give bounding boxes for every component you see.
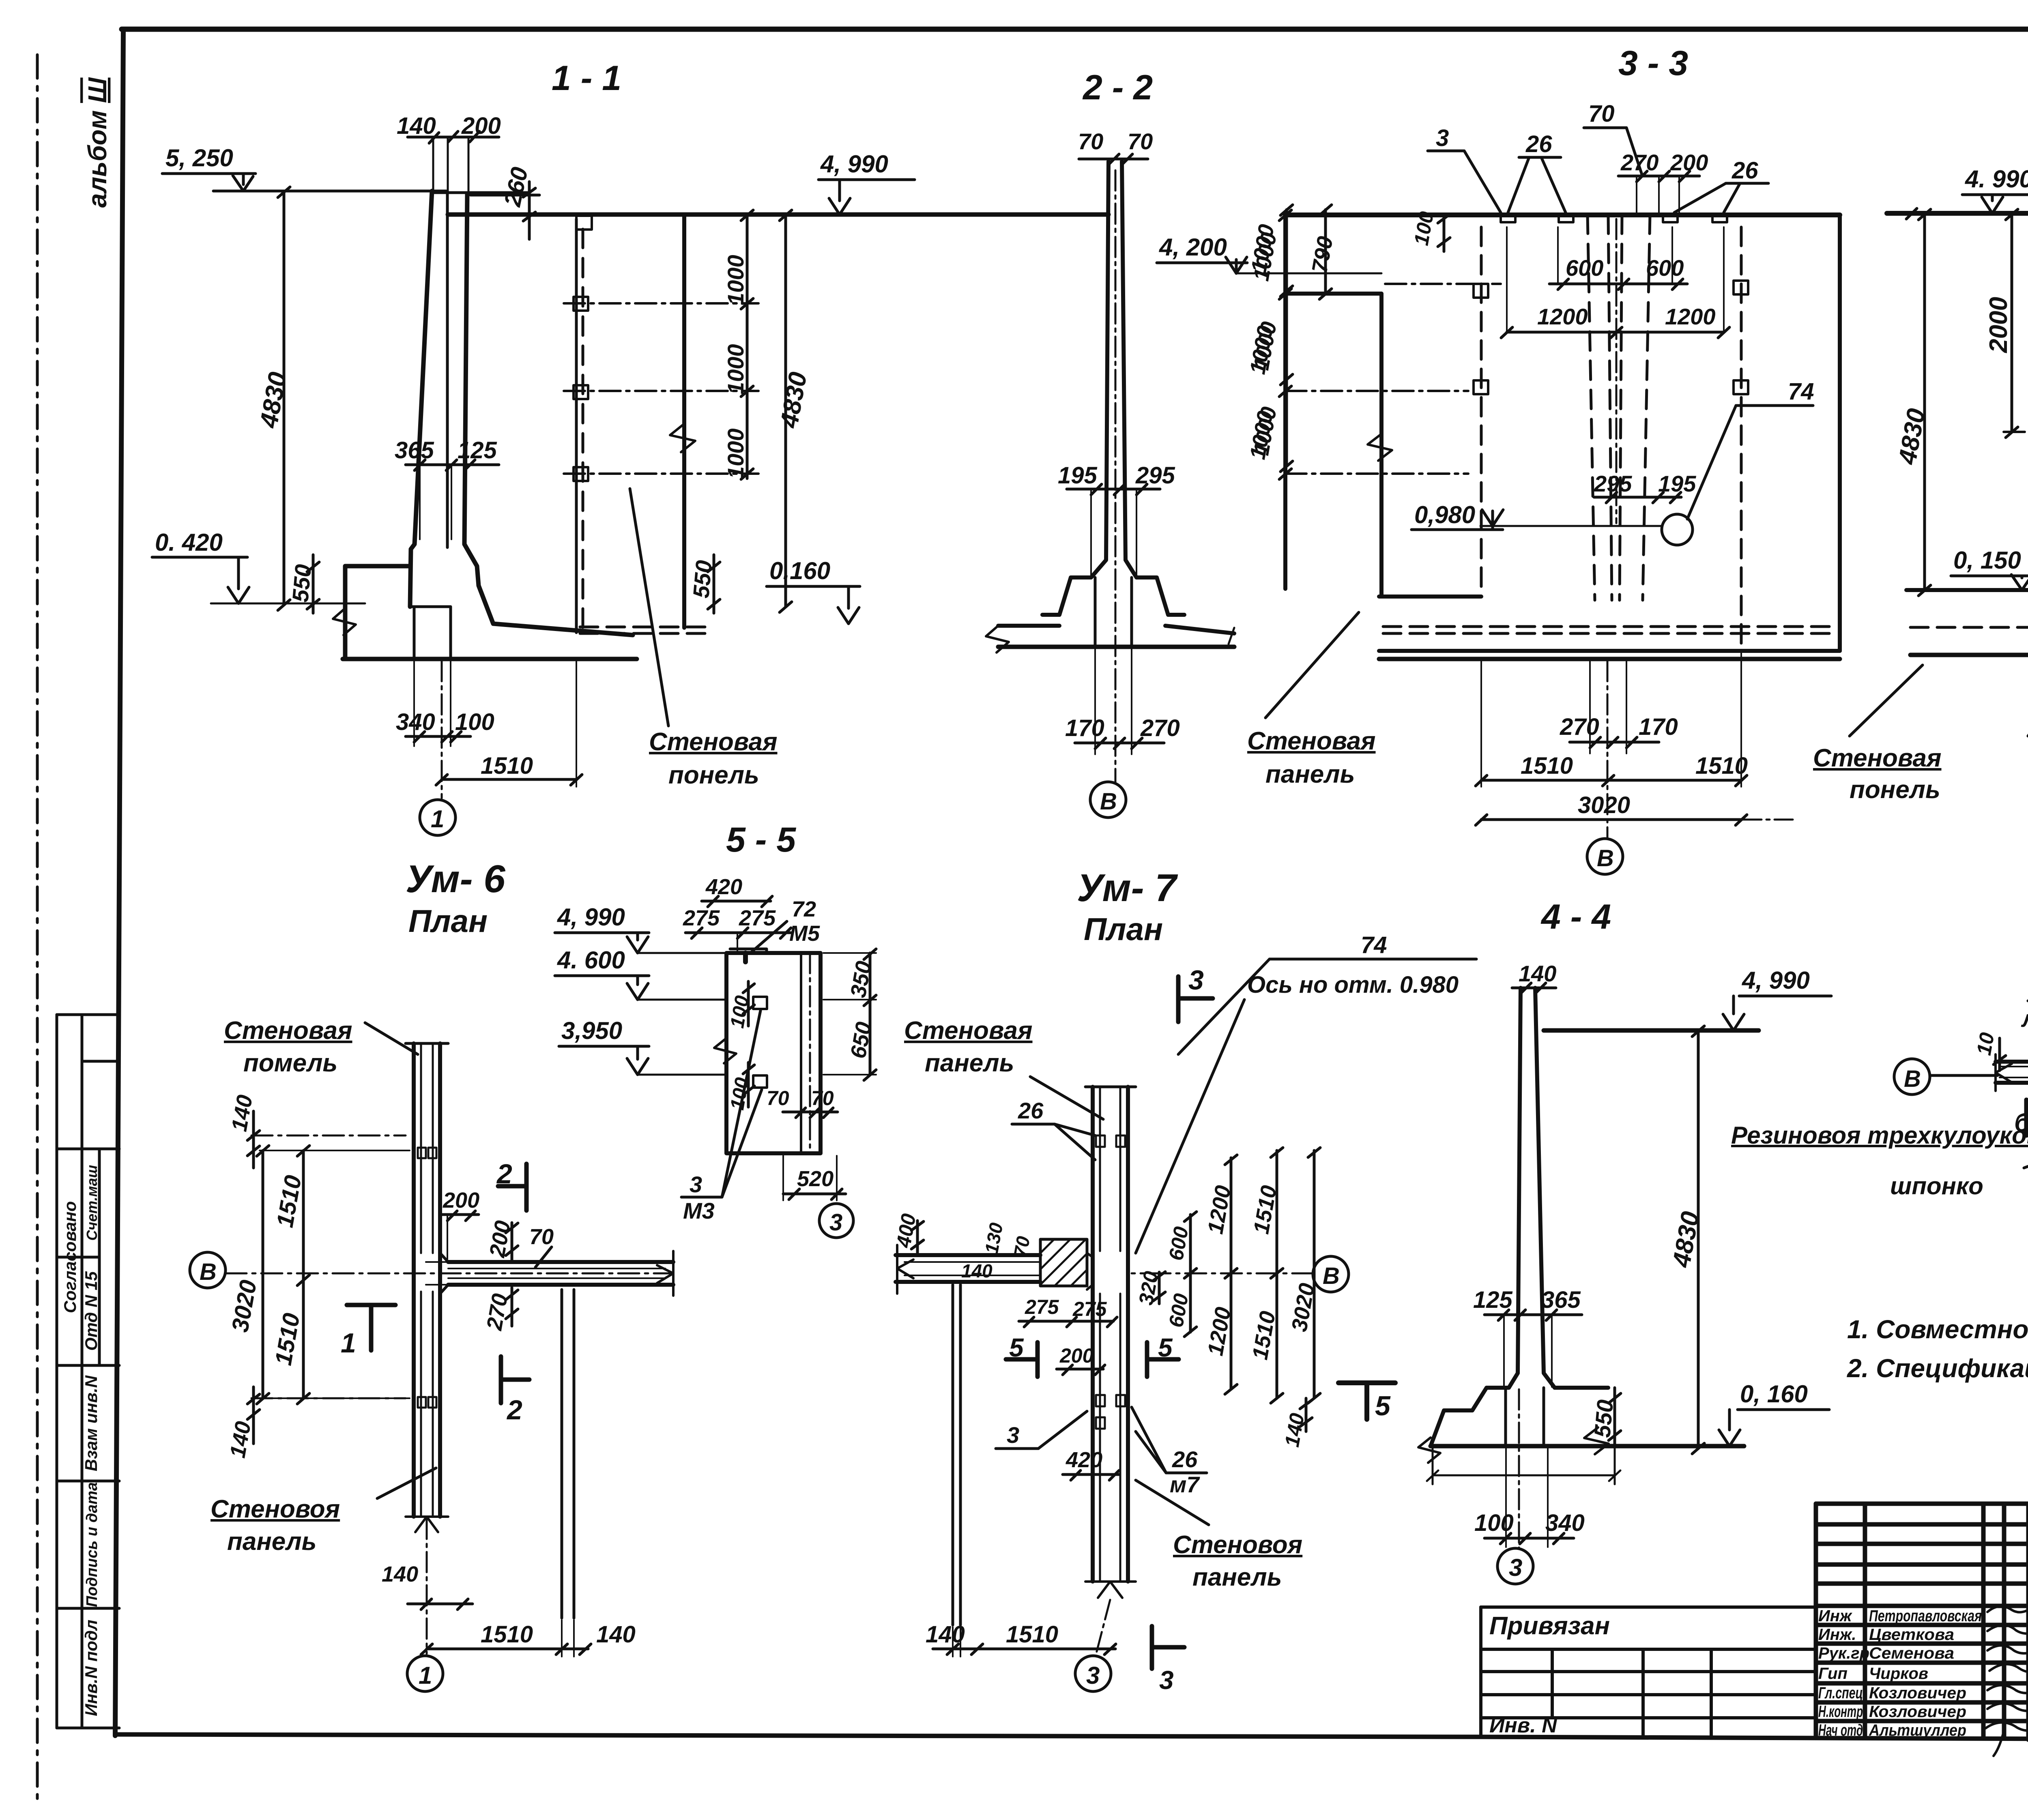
label 26 right with leaders bbox=[1674, 157, 1768, 212]
svg-text:26: 26 bbox=[1525, 131, 1552, 157]
axis bubble 1 bbox=[420, 800, 455, 835]
axis bubble 3 Um-7 bbox=[1075, 1600, 1111, 1691]
стеновая панель label Um-6 top bbox=[224, 1017, 418, 1077]
dim 275/275 below arm bbox=[1019, 1296, 1117, 1327]
svg-text:5: 5 bbox=[1009, 1333, 1024, 1362]
svg-text:Стеновая: Стеновая bbox=[1813, 744, 1942, 772]
dim 125/365 4-4 bbox=[1473, 1287, 1582, 1387]
svg-text:В: В bbox=[1904, 1066, 1921, 1092]
svg-text:Инв. N: Инв. N bbox=[1489, 1714, 1558, 1737]
svg-text:170: 170 bbox=[1065, 715, 1104, 741]
clip 2 with 100 dim bbox=[726, 1062, 767, 1112]
4-4 footing bbox=[1431, 1388, 1509, 1446]
svg-text:В: В bbox=[1597, 845, 1614, 871]
стеновая панель label 6-6 bbox=[1813, 665, 2028, 804]
left end arrows bbox=[1996, 1054, 2012, 1091]
dim 320 rotated bbox=[1134, 1269, 1165, 1307]
dim 140/200 at wall top bbox=[397, 113, 501, 143]
wall top cap bbox=[1085, 1086, 1136, 1088]
6-6 top line bbox=[1887, 211, 2028, 216]
wall 1-1 right face bbox=[464, 193, 633, 635]
axis bubble B Um-7 bbox=[1313, 1256, 1349, 1292]
left stamp strip table bbox=[57, 1015, 119, 1728]
svg-text:70: 70 bbox=[529, 1225, 554, 1249]
6-6 footing bottom bbox=[1910, 655, 2028, 678]
dim 400 rotated at arm left bbox=[892, 1212, 924, 1253]
svg-text:3: 3 bbox=[1086, 1662, 1100, 1689]
svg-text:275: 275 bbox=[683, 906, 720, 930]
svg-text:Отд N 15: Отд N 15 bbox=[82, 1271, 101, 1350]
dim 2000 bbox=[1985, 209, 2018, 438]
svg-text:Инж: Инж bbox=[1818, 1607, 1853, 1625]
svg-text:275: 275 bbox=[1025, 1296, 1059, 1318]
footing 2-2 slab bbox=[998, 624, 1059, 628]
svg-text:1510: 1510 bbox=[481, 753, 533, 779]
elevation 0.160 bbox=[767, 557, 860, 624]
dim 100/340 4-4 bbox=[1474, 1448, 1585, 1547]
dim 550 right (at panel) bbox=[688, 555, 720, 613]
clip 1 with 100 dim bbox=[726, 981, 767, 1030]
dim 1510/1510 rotated Um-7 bbox=[1248, 1148, 1283, 1403]
dim column 1000 2-2 bbox=[1249, 205, 1293, 472]
svg-text:295: 295 bbox=[1135, 462, 1175, 489]
elevation 4.600 5-5 bbox=[555, 946, 726, 1000]
section mark 2 upper bbox=[496, 1159, 526, 1210]
svg-text:26: 26 bbox=[1172, 1447, 1198, 1472]
svg-text:5, 250: 5, 250 bbox=[165, 144, 233, 172]
svg-text:200: 200 bbox=[443, 1188, 479, 1213]
svg-text:панель: панель bbox=[1265, 760, 1355, 788]
axis bubble B 3-3 bbox=[1587, 839, 1623, 874]
svg-text:125: 125 bbox=[458, 437, 497, 464]
dim 1200/1200 bbox=[1501, 227, 1729, 338]
svg-text:В: В bbox=[1323, 1263, 1340, 1289]
svg-text:Козловичер: Козловичер bbox=[1869, 1684, 1966, 1702]
sheet outer left edge (fold line) bbox=[36, 55, 39, 1801]
dim 140 bottom rotated bbox=[226, 1387, 260, 1460]
svg-text:1510: 1510 bbox=[1695, 753, 1748, 779]
axis B to wall bbox=[1132, 1273, 1313, 1275]
svg-text:4, 200: 4, 200 bbox=[1159, 234, 1227, 261]
svg-text:4. 600: 4. 600 bbox=[557, 946, 625, 974]
dim 1510 / 140 bottom bbox=[421, 1620, 636, 1657]
axis bubble 3 4-4 bbox=[1497, 1389, 1533, 1584]
4-4 wall faces bbox=[1509, 988, 1521, 1388]
svg-text:26: 26 bbox=[1018, 1098, 1044, 1123]
dim 140 bottom horiz bbox=[382, 1562, 473, 1610]
break on inner edge bbox=[1368, 434, 1392, 461]
svg-text:Инв.N подл: Инв.N подл bbox=[82, 1620, 101, 1716]
dash tie top bbox=[251, 1135, 406, 1137]
title block: pривязан box bbox=[1481, 1607, 1816, 1737]
clip squares on 3-3 top bbox=[1501, 215, 1515, 222]
frame left border bbox=[115, 29, 123, 1736]
junction wedges bbox=[440, 1253, 448, 1294]
6-6 footing top line bbox=[1906, 588, 2028, 592]
dim 520 bottom 5-5 bbox=[783, 1156, 846, 1200]
hidden slab dashes right bbox=[580, 627, 706, 633]
svg-text:Стеновоя: Стеновоя bbox=[211, 1495, 340, 1523]
svg-text:3: 3 bbox=[1188, 965, 1204, 996]
svg-text:70: 70 bbox=[767, 1087, 789, 1110]
dash tie bottom bbox=[251, 1397, 406, 1399]
Um-6 wall bottom cap bbox=[406, 1517, 448, 1532]
dim 350/650 right bbox=[823, 949, 876, 1080]
svg-text:альбом Ш: альбом Ш bbox=[83, 77, 112, 208]
svg-text:0,980: 0,980 bbox=[1414, 501, 1475, 528]
svg-text:Козловичер: Козловичер bbox=[1869, 1703, 1966, 1721]
elevation 3,950 5-5 bbox=[559, 1017, 726, 1075]
extension lines to 140/200 dim bbox=[433, 138, 468, 215]
leader стеновая панель 1-1 bbox=[630, 489, 668, 726]
dim 4830 4-4 bbox=[1667, 1026, 1705, 1454]
section mark 3 bottom bbox=[1152, 1626, 1184, 1695]
svg-text:140: 140 bbox=[1519, 961, 1556, 986]
tie dash-dot top bbox=[1385, 283, 1501, 285]
break mark on block bbox=[714, 1038, 736, 1063]
svg-text:Подпись и дата: Подпись и дата bbox=[84, 1482, 101, 1607]
label I лист 24 bbox=[2021, 972, 2028, 1067]
dim 200 above arm bbox=[440, 1188, 479, 1259]
label 72 M5 bbox=[750, 897, 820, 953]
svg-text:3 - 3: 3 - 3 bbox=[1618, 44, 1688, 83]
wall top end cap bbox=[406, 1042, 448, 1045]
axis bubble B Um-6 bbox=[190, 1252, 673, 1288]
ties in left bay bbox=[1285, 391, 1468, 474]
arm end arrows left bbox=[897, 1245, 913, 1294]
Um-6 wall strip vertical bbox=[414, 1043, 440, 1517]
frame bottom border bbox=[115, 1734, 2028, 1741]
dim 70/70 wall top 2-2 bbox=[1078, 129, 1153, 165]
top clip joint bbox=[418, 1148, 426, 1158]
svg-text:125: 125 bbox=[1473, 1287, 1513, 1313]
break на slab 4-4 bbox=[1584, 1427, 1609, 1454]
Um-6 title bbox=[406, 857, 505, 939]
arm end arrows bbox=[657, 1251, 673, 1296]
dim 10 rotated left bbox=[1972, 1031, 2006, 1071]
tie dash-dot at 2000 level bbox=[2004, 431, 2028, 433]
label 26 left with leaders bbox=[1508, 131, 1566, 212]
svg-text:4, 990: 4, 990 bbox=[820, 150, 888, 178]
svg-text:270: 270 bbox=[1620, 150, 1658, 175]
svg-text:План: План bbox=[408, 903, 488, 939]
break mark on panel far edge bbox=[670, 424, 695, 452]
section mark 3 top bbox=[1178, 965, 1213, 1022]
svg-text:420: 420 bbox=[1066, 1448, 1102, 1472]
svg-text:70: 70 bbox=[1128, 129, 1153, 154]
bubble 3 5-5 bbox=[819, 1204, 853, 1238]
стеновая панель label (3-3 left) bbox=[1247, 612, 1376, 788]
signature column names bbox=[1818, 1607, 1982, 1739]
elevation 0,420 bbox=[152, 529, 365, 603]
frame top border bbox=[122, 27, 2028, 32]
axis to bubble B 3-3 bbox=[1607, 661, 1609, 837]
dim 195/295 2-2 bbox=[1058, 462, 1175, 576]
label 3 lower bbox=[996, 1411, 1087, 1449]
dim 1510 under footing bbox=[436, 661, 582, 787]
axis bubble 1 Um-6 bbox=[407, 1519, 443, 1691]
svg-text:Рук.гр: Рук.гр bbox=[1818, 1644, 1869, 1662]
svg-text:2. Спецификация элементов с: 2. Спецификация элементов см. л. КЖ-27. bbox=[1847, 1354, 2028, 1383]
axis bubble B Um-10 bbox=[1894, 1059, 1998, 1095]
wall 1-1 inner joint line bbox=[446, 193, 449, 547]
bottom clip joint bbox=[418, 1397, 426, 1408]
svg-text:4, 990: 4, 990 bbox=[1742, 967, 1810, 994]
svg-text:340: 340 bbox=[396, 709, 435, 735]
dim 140 top 4-4 bbox=[1512, 961, 1556, 994]
section mark 2 lower bbox=[501, 1356, 529, 1425]
node circle 74 bbox=[1662, 514, 1693, 545]
3-3 left bay floor bbox=[1379, 595, 1481, 599]
svg-text:550: 550 bbox=[287, 563, 316, 603]
svg-text:шпонко: шпонко bbox=[1890, 1172, 1983, 1200]
dim 140/1510 bottom Um-7 bbox=[926, 1621, 1116, 1657]
svg-text:140: 140 bbox=[596, 1621, 636, 1648]
hidden slab dashes 6-6 bbox=[1910, 626, 2028, 629]
svg-text:170: 170 bbox=[1639, 714, 1678, 740]
svg-text:3: 3 bbox=[1509, 1554, 1522, 1581]
title block: main grid bbox=[1816, 1504, 2028, 1740]
svg-text:Стеновоя: Стеновоя bbox=[1173, 1531, 1302, 1559]
elevation 4,990 top right bbox=[819, 150, 915, 215]
svg-text:520: 520 bbox=[797, 1167, 834, 1191]
svg-text:1510: 1510 bbox=[1521, 753, 1573, 779]
svg-text:Петропавловская: Петропавловская bbox=[1869, 1607, 1982, 1625]
label 70 at arm bbox=[529, 1225, 554, 1267]
svg-text:М3: М3 bbox=[683, 1198, 715, 1223]
svg-text:74: 74 bbox=[1361, 932, 1387, 958]
svg-text:140: 140 bbox=[397, 113, 436, 139]
elevation 0.980 bbox=[1411, 501, 1662, 530]
svg-text:600: 600 bbox=[1646, 255, 1684, 281]
junction wedges Um-7 bbox=[1087, 1253, 1093, 1290]
5-5 inner lines bbox=[800, 953, 802, 1153]
svg-text:1000: 1000 bbox=[723, 344, 748, 395]
svg-text:200: 200 bbox=[461, 113, 501, 139]
svg-text:помель: помель bbox=[243, 1049, 337, 1077]
dim 275/275 bbox=[683, 906, 791, 953]
svg-text:2: 2 bbox=[496, 1159, 512, 1189]
dim 200 rotated at arm bbox=[485, 1219, 518, 1261]
dim 260 bbox=[470, 165, 539, 239]
svg-text:3020: 3020 bbox=[1578, 792, 1630, 818]
label 26 M7 bbox=[1132, 1407, 1207, 1497]
elevation 0,160 4-4 bbox=[1719, 1380, 1829, 1446]
svg-text:3: 3 bbox=[829, 1209, 842, 1236]
svg-text:Инж.: Инж. bbox=[1818, 1626, 1856, 1644]
svg-text:2000: 2000 bbox=[1985, 297, 2013, 353]
dim 420 bbox=[702, 875, 772, 907]
footing 1-1 outline bbox=[345, 566, 410, 658]
dim 270/170 under 3-3 bbox=[1560, 661, 1678, 753]
label 74 leader bbox=[1687, 378, 1814, 519]
dim 3020 rotated Um-7 bbox=[1287, 1148, 1320, 1403]
svg-text:Альтшуллер: Альтшуллер bbox=[1869, 1721, 1966, 1739]
elevation 4.990 6-6 bbox=[1906, 165, 2028, 219]
panel top line 4-4 bbox=[1544, 1028, 1759, 1033]
panel dashed edge with clips bbox=[574, 216, 592, 633]
svg-text:0.160: 0.160 bbox=[769, 557, 830, 584]
wall clips bottom Um-7 bbox=[1096, 1395, 1105, 1406]
dim 70/70 bottom 5-5 bbox=[767, 1087, 838, 1118]
dim 365/125 mid wall bbox=[395, 437, 499, 539]
svg-text:Н.контр: Н.контр bbox=[1818, 1703, 1863, 1721]
footing 2-2 pedestal bbox=[1042, 577, 1091, 615]
elevation 4,200 bbox=[1157, 234, 1381, 273]
3-3 wall hidden dashed tapered bbox=[1588, 215, 1650, 600]
svg-text:0. 420: 0. 420 bbox=[155, 529, 223, 556]
hatched junction block bbox=[1040, 1239, 1087, 1286]
dim 4830 left bbox=[255, 187, 292, 610]
svg-text:М5: М5 bbox=[789, 921, 820, 946]
label 3/M3 5-5 bbox=[681, 1011, 762, 1223]
wall 1-1 left face bbox=[410, 191, 432, 607]
dim 140 rotated bottom right Um-7 bbox=[1280, 1398, 1312, 1449]
svg-text:3: 3 bbox=[1007, 1422, 1019, 1448]
elevation 0,150 bbox=[1951, 547, 2028, 590]
album III rotated note bbox=[83, 77, 112, 208]
svg-text:1510: 1510 bbox=[1006, 1621, 1058, 1648]
svg-text:Согласовано: Согласовано bbox=[60, 1201, 79, 1313]
panel dashed edge left bay bbox=[1474, 227, 1488, 597]
svg-text:Резиновоя трехкулоуковоя: Резиновоя трехкулоуковоя bbox=[1731, 1122, 2028, 1149]
dim 790 bbox=[1307, 205, 1338, 299]
svg-text:1: 1 bbox=[419, 1662, 432, 1689]
3-3 panel dashed right bbox=[1734, 227, 1748, 649]
dim 550 4-4 bbox=[1589, 1388, 1621, 1446]
svg-text:Стеновая: Стеновая bbox=[649, 728, 778, 756]
Um-6 right arm bbox=[448, 1262, 673, 1285]
wall top level line 5.250 bbox=[226, 190, 446, 193]
svg-text:4, 990: 4, 990 bbox=[557, 904, 625, 931]
elevation 4,990 5-5 bbox=[555, 904, 726, 953]
section marks b bbox=[2014, 1100, 2028, 1137]
dim 295/195 low bbox=[1594, 471, 1696, 503]
svg-text:550: 550 bbox=[688, 559, 717, 599]
dim 1510/1510 left bbox=[260, 1146, 410, 1404]
dim column 1000 x3 bbox=[723, 210, 753, 479]
svg-text:4. 990: 4. 990 bbox=[1965, 165, 2028, 193]
down panel from arm Um-7 bbox=[953, 1285, 960, 1625]
labels 130 70 140 small bbox=[961, 1221, 1034, 1281]
svg-text:1000: 1000 bbox=[723, 428, 748, 479]
svg-text:72: 72 bbox=[792, 897, 816, 921]
Um-10/11 wall strip bbox=[1996, 1062, 2028, 1083]
svg-text:70: 70 bbox=[1588, 101, 1615, 127]
3-3 footing slab bbox=[1379, 649, 1840, 653]
wall 2-2 faces bbox=[1091, 161, 1109, 577]
svg-text:5: 5 bbox=[1158, 1333, 1173, 1362]
svg-text:3: 3 bbox=[1159, 1665, 1174, 1695]
svg-text:70: 70 bbox=[1010, 1234, 1034, 1259]
axis bubble B 2-2 bbox=[1090, 782, 1126, 818]
left stamp strip rotated labels bbox=[60, 1165, 101, 1716]
svg-text:Цветкова: Цветкова bbox=[1869, 1626, 1954, 1644]
svg-text:4 - 4: 4 - 4 bbox=[1540, 897, 1611, 936]
svg-text:План: План bbox=[1084, 911, 1163, 947]
panel far edge solid bbox=[682, 215, 686, 628]
dim 270 rotated below arm bbox=[482, 1288, 518, 1333]
svg-text:74: 74 bbox=[1788, 378, 1814, 405]
svg-text:Стеновая: Стеновая bbox=[224, 1017, 352, 1045]
svg-text:панель: панель bbox=[227, 1528, 316, 1556]
svg-text:0, 150: 0, 150 bbox=[1953, 547, 2021, 574]
dim 420 lower bbox=[1063, 1448, 1119, 1480]
svg-text:270: 270 bbox=[1140, 715, 1180, 741]
signatures squiggles bbox=[1985, 1606, 2028, 1756]
svg-text:5: 5 bbox=[1375, 1391, 1391, 1421]
wall top edge 5.250 bbox=[432, 191, 528, 194]
svg-text:70: 70 bbox=[1078, 129, 1103, 154]
down panel from arm bbox=[562, 1290, 574, 1618]
svg-text:Ум- 7: Ум- 7 bbox=[1077, 866, 1178, 910]
dim 200 small below bbox=[1057, 1344, 1105, 1375]
wall bottom cap Um-7 bbox=[1085, 1582, 1136, 1598]
label 74 + ось на отм bbox=[1136, 932, 1476, 1253]
svg-text:70: 70 bbox=[811, 1087, 834, 1110]
svg-text:420: 420 bbox=[705, 875, 742, 899]
svg-text:Чирков: Чирков bbox=[1869, 1665, 1928, 1683]
dim 1000 col 3-3 bbox=[1245, 210, 1291, 479]
svg-text:панель: панель bbox=[925, 1049, 1014, 1077]
svg-text:1200: 1200 bbox=[1665, 304, 1716, 329]
Um-7 wall strip bbox=[1093, 1087, 1128, 1582]
3-3 wall axis bbox=[1616, 219, 1618, 523]
wall clips top bbox=[1096, 1135, 1105, 1147]
notes bbox=[1847, 1315, 2028, 1383]
dim 340/100 under footing bbox=[396, 661, 494, 746]
svg-text:2 - 2: 2 - 2 bbox=[1082, 68, 1153, 107]
5-5 block outline bbox=[726, 953, 821, 1153]
svg-text:600: 600 bbox=[1566, 255, 1603, 281]
svg-text:10: 10 bbox=[1972, 1031, 1999, 1057]
dim 600/600 rotated Um-7 bbox=[1164, 1212, 1197, 1337]
svg-text:В: В bbox=[200, 1259, 217, 1285]
svg-text:м7: м7 bbox=[1170, 1472, 1200, 1497]
svg-text:200: 200 bbox=[1059, 1344, 1094, 1367]
svg-text:550: 550 bbox=[1589, 1399, 1618, 1439]
dim 4830 right bbox=[775, 210, 812, 612]
svg-text:1: 1 bbox=[431, 805, 444, 833]
big T5 mark bbox=[1338, 1383, 1395, 1421]
svg-text:340: 340 bbox=[1545, 1510, 1585, 1536]
svg-text:Семенова: Семенова bbox=[1869, 1644, 1954, 1662]
Um-7 title bbox=[1077, 866, 1178, 947]
svg-text:понель: понель bbox=[668, 761, 759, 789]
svg-text:140: 140 bbox=[961, 1260, 993, 1281]
svg-text:1 - 1: 1 - 1 bbox=[552, 59, 621, 98]
svg-text:3,950: 3,950 bbox=[561, 1017, 622, 1044]
svg-text:Взам инв.N: Взам инв.N bbox=[82, 1375, 101, 1471]
svg-text:1510: 1510 bbox=[481, 1621, 533, 1648]
label 3 with leader bbox=[1428, 125, 1501, 212]
svg-text:195: 195 bbox=[1058, 462, 1098, 489]
svg-text:3: 3 bbox=[690, 1172, 702, 1197]
svg-text:Гл.спец: Гл.спец bbox=[1818, 1684, 1863, 1702]
svg-text:0, 160: 0, 160 bbox=[1740, 1380, 1808, 1408]
bottom width dim 4-4 bbox=[1427, 1448, 1620, 1484]
3-3 left bay inner edge bbox=[1379, 294, 1384, 597]
rubber key label bbox=[1731, 1075, 2028, 1200]
dim 3020 left bbox=[227, 1146, 269, 1404]
3-3 right edge bbox=[1838, 215, 1842, 651]
elevation 5,250 mark bbox=[162, 144, 256, 191]
svg-text:Ум- 6: Ум- 6 bbox=[406, 857, 505, 901]
dim 170/270 under 2-2 bbox=[1065, 649, 1180, 754]
стеновая панель label Um-7 top bbox=[904, 1017, 1103, 1119]
label 70 top bbox=[1584, 101, 1642, 174]
стеновая панель label Um-7 bottom bbox=[1136, 1480, 1302, 1591]
